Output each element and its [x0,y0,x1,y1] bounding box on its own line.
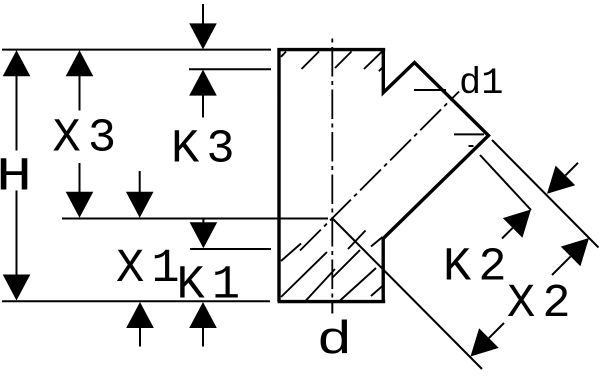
body outline [278,48,489,303]
svg-text:K1: K1 [177,259,248,312]
dimension line X3 X1 [62,218,328,220]
arrow K2 lower [503,210,531,238]
arrow X2 lower [471,328,499,356]
svg-text:K2: K2 [443,241,514,294]
hatch lower body [281,244,301,262]
arrow K1 top [190,222,218,248]
svg-text:H: H [0,151,41,204]
svg-text:K3: K3 [171,124,242,177]
d1 tick lower [454,133,484,135]
arrow X3 bottom [66,192,94,218]
arrow H bottom [3,275,31,301]
small dash [469,145,474,147]
arrow K1 bottom [189,302,217,328]
dimension line top [2,49,271,51]
svg-text:X3: X3 [53,113,124,166]
svg-text:d: d [317,316,353,368]
svg-text:X2: X2 [507,278,578,331]
dimension line K3 [189,68,271,70]
dimension line bottom [2,300,270,302]
extension line shoulder B [480,155,531,210]
arrow K3 bottom [189,70,217,96]
hatch tick top band [281,52,286,57]
arrow X3 top [66,50,94,76]
extension line face A [492,140,599,248]
arrow K2 upper [547,166,575,194]
arrow H top [3,50,31,76]
arrow X1 top [126,192,154,218]
extension line X2 through center [332,218,482,369]
branch axis centerline [300,92,459,251]
d1 tick upper [414,89,446,91]
arrow K3 top [189,23,217,49]
arrow X1 bottom [126,302,154,328]
dimension line K1 [190,248,271,250]
vertical centerline [331,39,333,314]
svg-text:d1: d1 [459,63,503,105]
arrow X2 upper [561,238,589,266]
